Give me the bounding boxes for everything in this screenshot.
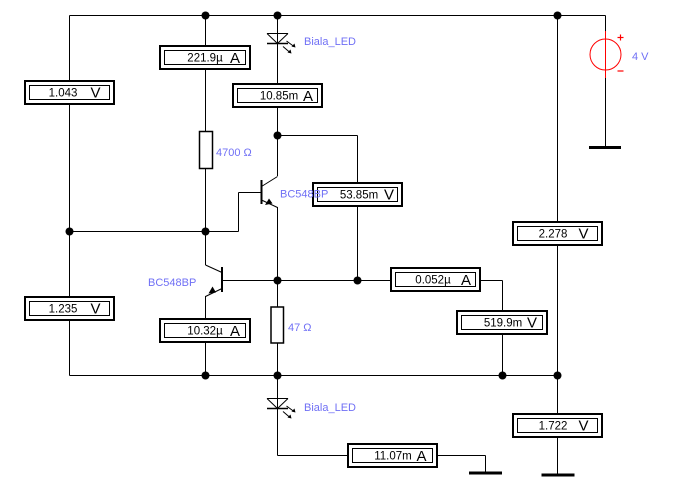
svg-text:10.85m: 10.85m bbox=[260, 91, 298, 103]
voltmeter M4 53.85m V bbox=[313, 183, 402, 206]
wire bottom LED2 branch y455 bbox=[278, 455, 486, 457]
svg-text:A: A bbox=[416, 448, 426, 465]
voltmeter M7 519.9m V bbox=[457, 311, 547, 334]
svg-text:V: V bbox=[90, 301, 100, 318]
ammeter M9 10.32u A bbox=[160, 319, 250, 342]
svg-text:BC548BP: BC548BP bbox=[148, 277, 196, 289]
wire x205 emitter column bottom bbox=[205, 296, 207, 376]
voltage source V1 4V bbox=[590, 31, 624, 78]
svg-text:0.052µ: 0.052µ bbox=[415, 275, 451, 287]
svg-text:1.722: 1.722 bbox=[539, 421, 568, 433]
wire x277 LED column bbox=[277, 16, 279, 177]
svg-text:V: V bbox=[384, 187, 394, 204]
ground for right column bbox=[542, 474, 575, 477]
ammeter M2 221.9u A bbox=[160, 46, 250, 69]
svg-text:221.9µ: 221.9µ bbox=[187, 53, 223, 65]
voltmeter M1 1.043 V bbox=[25, 81, 114, 104]
svg-text:2.278: 2.278 bbox=[539, 229, 568, 241]
svg-text:519.9m: 519.9m bbox=[484, 318, 522, 330]
svg-text:V: V bbox=[578, 418, 588, 435]
wire x485 ground drop bbox=[485, 456, 487, 473]
svg-text:1.043: 1.043 bbox=[49, 88, 78, 100]
svg-text:V: V bbox=[578, 226, 588, 243]
ground for source bbox=[589, 146, 621, 149]
wire right column x557 bbox=[557, 16, 559, 476]
svg-text:11.07m: 11.07m bbox=[374, 451, 412, 463]
wire x238 base riser bbox=[238, 193, 240, 232]
ammeter M10 11.07m A bbox=[348, 444, 437, 467]
svg-text:Biala_LED: Biala_LED bbox=[304, 402, 356, 414]
svg-text:A: A bbox=[461, 272, 471, 289]
ammeter M3 10.85m A bbox=[233, 84, 322, 107]
resistor R2 47 ohm bbox=[271, 307, 284, 343]
wire y231 horizontal bbox=[70, 231, 239, 233]
svg-text:A: A bbox=[230, 323, 240, 340]
wire source column x605 black top bbox=[605, 16, 607, 32]
svg-text:1.235: 1.235 bbox=[49, 304, 78, 316]
resistor R1 4700 ohm bbox=[200, 132, 213, 169]
svg-text:V: V bbox=[90, 85, 100, 102]
voltmeter M5 2.278 V bbox=[513, 222, 602, 245]
ammeter M6 0.052u A bbox=[391, 268, 480, 291]
wire x205 column top bbox=[205, 16, 207, 266]
LED D2 Biala_LED bottom bbox=[267, 399, 296, 419]
svg-text:10.32µ: 10.32µ bbox=[187, 326, 223, 338]
wire bottom rail y375 bbox=[70, 375, 558, 377]
junction dots bbox=[202, 12, 210, 20]
voltmeter M11 1.722 V bbox=[513, 414, 602, 437]
transistor Q1 BC548BP upper bbox=[262, 177, 278, 208]
svg-text:A: A bbox=[230, 50, 240, 67]
wire base Q2 y280 bbox=[222, 280, 503, 282]
wire base Q1 y192 bbox=[239, 192, 262, 194]
ground for ammeter branch bbox=[469, 472, 502, 475]
wire x357 voltmeter branch bbox=[357, 136, 359, 281]
svg-text:A: A bbox=[303, 88, 313, 105]
wire top rail bbox=[70, 15, 606, 17]
voltmeter M8 1.235 V bbox=[25, 297, 114, 320]
wire x277 emitter to bottom bbox=[277, 207, 279, 456]
svg-text:4 V: 4 V bbox=[632, 51, 649, 63]
svg-text:V: V bbox=[527, 315, 537, 332]
transistor Q2 BC548BP lower bbox=[206, 265, 223, 297]
svg-text:4700 Ω: 4700 Ω bbox=[216, 147, 252, 159]
svg-text:Biala_LED: Biala_LED bbox=[304, 36, 356, 48]
svg-text:BC548BP: BC548BP bbox=[280, 189, 328, 201]
wire node A horizontal y135 bbox=[278, 135, 358, 137]
wire left column bbox=[69, 16, 71, 376]
svg-text:47 Ω: 47 Ω bbox=[288, 322, 312, 334]
svg-text:53.85m: 53.85m bbox=[340, 190, 378, 202]
LED D1 Biala_LED top bbox=[267, 34, 296, 54]
wire source column x605 black bottom bbox=[605, 78, 607, 147]
wire x502 branch down bbox=[502, 281, 504, 376]
